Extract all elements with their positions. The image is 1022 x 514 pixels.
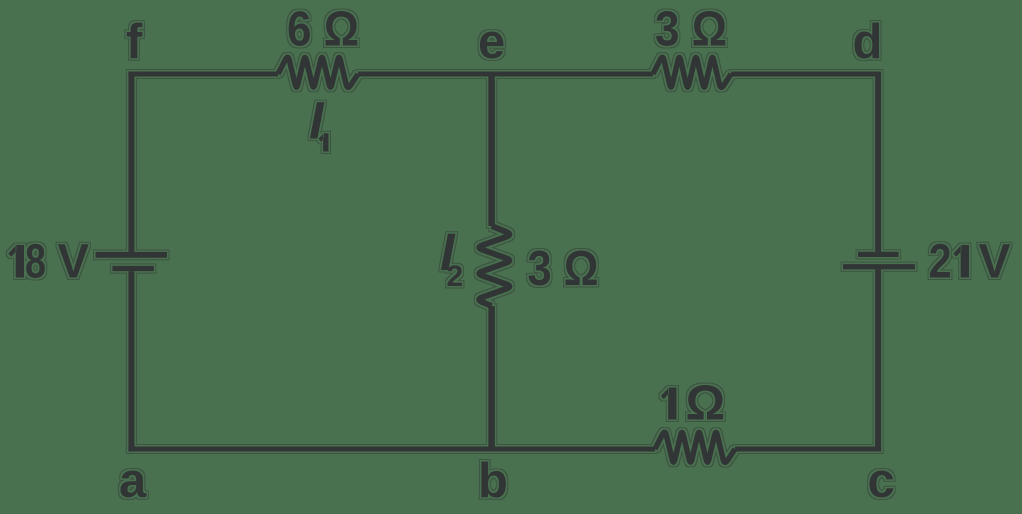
battery B1 18V short plate (negative, bottom) [112,266,153,271]
svg-text:V: V [979,236,1011,289]
wire top middle: from 6Ω through node e to 3Ω [358,72,653,77]
resistor R3 3Ω (middle vertical, between e and b) [479,226,509,306]
svg-text:8: 8 [25,236,46,289]
svg-text:e: e [478,15,505,69]
resistor R2 3Ω (top-right, between e and d) [653,57,731,87]
svg-text:2: 2 [929,236,952,289]
svg-text:Ω: Ω [686,376,726,431]
wire right side upper: node d down to 21V battery top plate [875,72,881,252]
svg-text:c: c [868,454,895,508]
battery B2 21V short plate (negative, top) [858,252,899,257]
svg-text:3 Ω: 3 Ω [528,241,599,296]
svg-text:3 Ω: 3 Ω [655,1,727,56]
wire middle lower: from vertical 3Ω resistor down to node b [488,306,495,452]
battery B1 18V long plate (positive, top) [96,252,168,258]
wire bottom right: from 1Ω to node c corner [735,447,881,452]
label 1 Ω (value of R4) [661,388,677,420]
svg-text:6 Ω: 6 Ω [287,1,359,56]
label 18 V [8,245,24,278]
wire bottom left: from node a corner to 1Ω resistor [128,447,655,452]
svg-text:2: 2 [447,260,464,293]
resistor R1 6Ω (top-left, between f and e) [278,57,358,87]
wire right side lower: 21V battery bottom plate down to node c [875,269,881,451]
svg-text:b: b [478,454,508,508]
wire top right: from 3Ω to node d corner [731,72,881,77]
svg-text:V: V [58,236,90,289]
resistor R4 1Ω (bottom, between b and c) [655,432,735,462]
battery B2 21V long plate (positive, bottom) [843,264,915,269]
wire top side: from node f to 6Ω resistor [128,72,278,77]
wire left side lower: 18V battery bottom plate down to node a [128,271,134,451]
svg-text:f: f [126,15,143,69]
svg-text:d: d [853,15,883,69]
wire middle upper: from node e down to vertical 3Ω resistor [488,72,495,227]
svg-text:a: a [119,454,147,508]
wire left side upper: node f down to 18V battery top plate [128,72,134,252]
svg-text:I: I [309,92,325,151]
